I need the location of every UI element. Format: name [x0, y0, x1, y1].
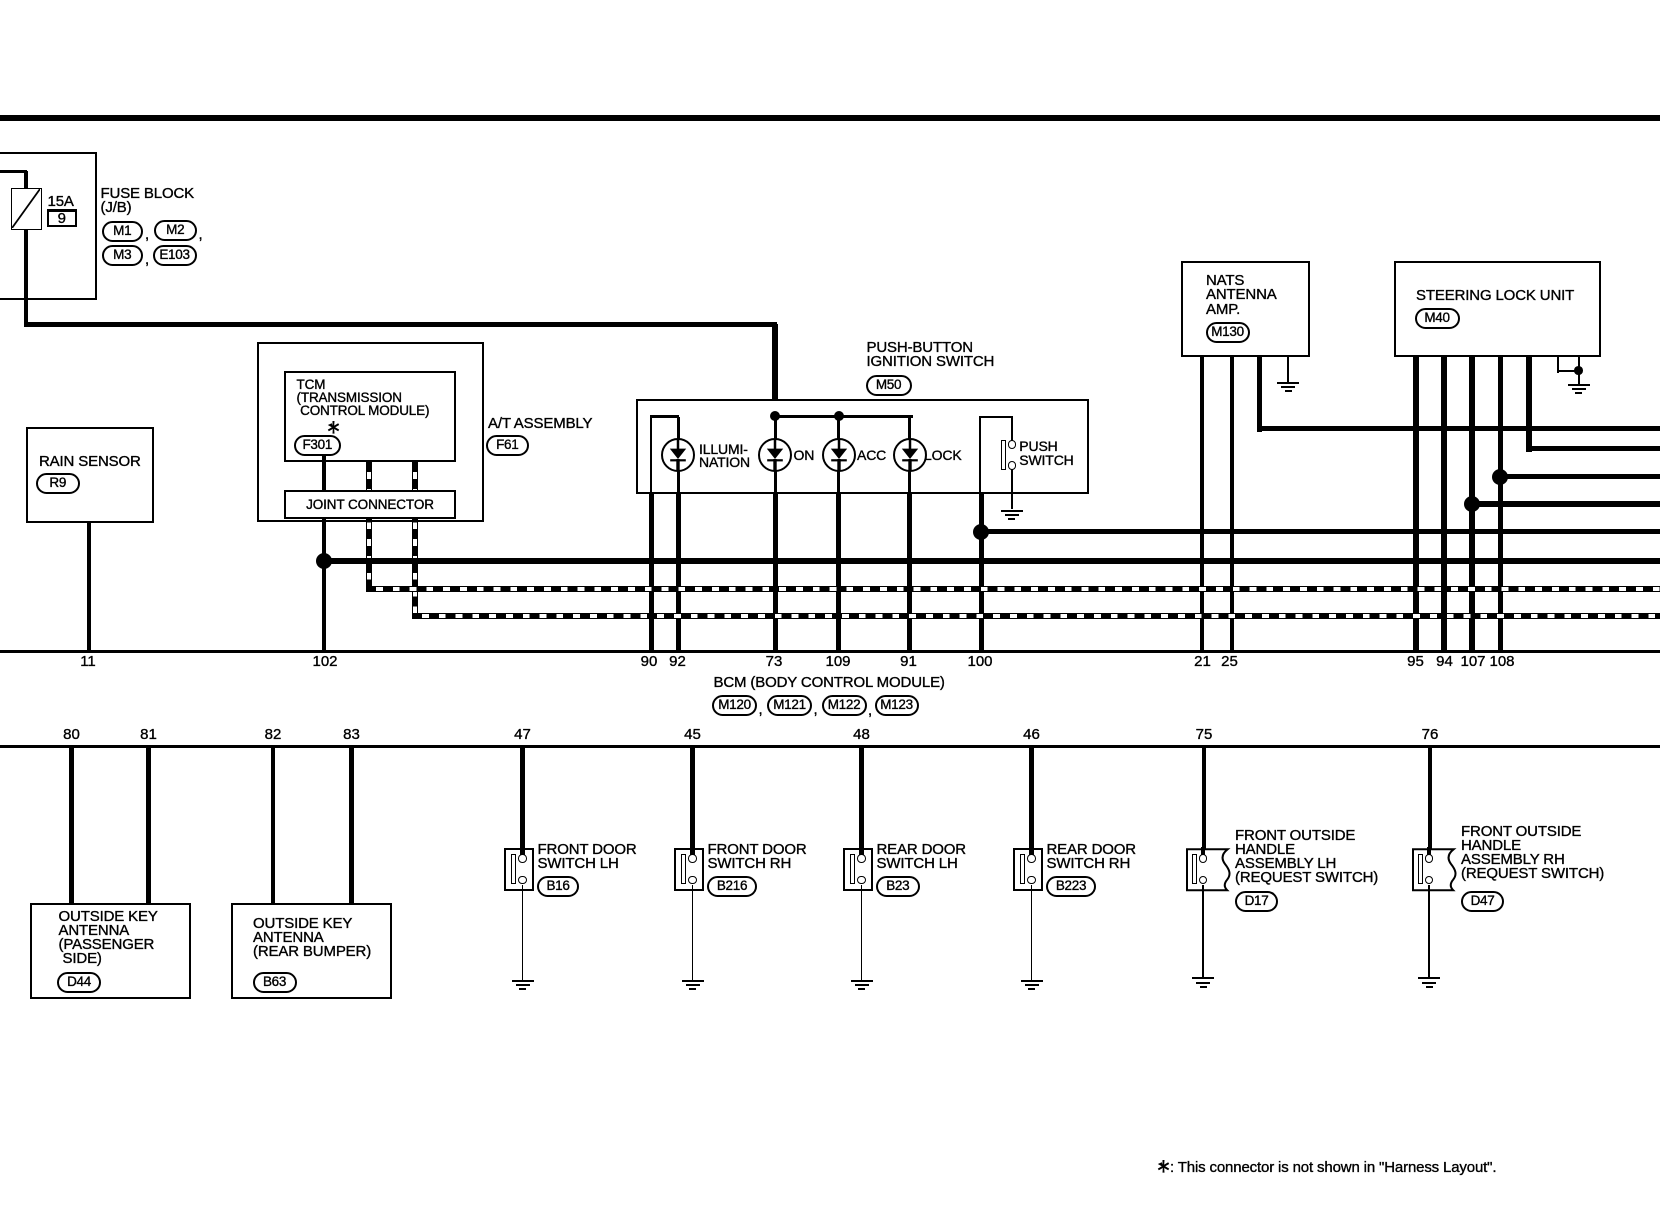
wire SLU pin 94 — [1441, 357, 1447, 651]
wire fuse feed vertical — [24, 171, 29, 327]
label OUTSIDE KEY ANTENNA REAR BUMPER label — [253, 917, 371, 960]
label FRONT OUTSIDE HANDLE ASSEMBLY LH label — [1235, 829, 1378, 886]
wire lock top lead — [908, 416, 911, 440]
wire BCM 92 drop — [676, 494, 681, 651]
pin BCM pin 107 — [1448, 654, 1498, 669]
connector M1 — [102, 221, 144, 242]
switch symbol REAR DOOR SWITCH LH — [843, 848, 873, 891]
pin BCM pin 45 — [668, 727, 718, 742]
pin BCM pin 47 — [498, 727, 548, 742]
wire BCM 46 drop — [1029, 748, 1033, 858]
label OUTSIDE KEY ANTENNA PASSENGER label — [59, 910, 158, 967]
wire FRONT DOOR SWITCH LH ground lead — [522, 885, 524, 980]
footnote — [1157, 1160, 1170, 1178]
wire BCM 90 drop — [649, 494, 654, 651]
ground steering lock ground — [1568, 384, 1590, 386]
connector E103 — [153, 245, 197, 266]
wire push switch 100 bus — [979, 529, 1660, 535]
pin BCM pin 11 — [63, 654, 113, 669]
wire NATS ground lead — [1287, 357, 1289, 382]
label FRONT DOOR SWITCH LH label — [538, 843, 637, 872]
wire TCM shield B vertical (shielded/dashed) — [412, 462, 418, 620]
wire fuse output bus — [24, 322, 778, 328]
star footnote mark at F301 — [327, 421, 340, 439]
connector M121 — [767, 695, 812, 716]
label ON label — [794, 449, 815, 462]
wire SLU pin 95 — [1413, 357, 1419, 651]
wire TCM shield A horizontal (shielded/dashed) — [366, 586, 1660, 592]
junction node TCM-102 junction — [316, 553, 332, 569]
connector M130 — [1206, 322, 1250, 343]
wire push switch contact lead — [1011, 416, 1013, 441]
ground FRONT DOOR SWITCH LH ground — [512, 980, 534, 982]
component box TCM — [284, 371, 456, 462]
wire rain sensor pin 11 — [87, 522, 91, 651]
wire TCM 102 bus — [322, 558, 1660, 564]
wire illumi bottom lead — [677, 470, 681, 495]
ground NATS ground — [1277, 382, 1299, 384]
pin BCM pin 95 — [1391, 654, 1441, 669]
pin BCM pin 91 — [884, 654, 934, 669]
wire push switch inner drop — [979, 416, 981, 494]
ground FRONT OUTSIDE HANDLE ASSEMBLY RH ground — [1418, 977, 1440, 979]
connector B16 — [537, 876, 579, 897]
wire BCM 109 drop — [836, 494, 841, 651]
ground REAR DOOR SWITCH LH ground — [851, 980, 873, 982]
fuse 15A #9 — [11, 188, 42, 230]
connector M120 — [712, 695, 757, 716]
wire BCM 100 drop — [979, 494, 984, 651]
wire SLU pin 108 — [1498, 357, 1504, 651]
wire NATS antenna signal bus — [1257, 426, 1660, 432]
wire acc top lead — [837, 417, 840, 440]
connector D17 — [1235, 891, 1278, 912]
wire BCM 80 drop — [69, 748, 73, 904]
connector D44 — [57, 972, 101, 993]
pin BCM pin 82 — [248, 727, 298, 742]
LED ILLUMINATION — [661, 438, 695, 472]
component box RAIN SENSOR — [26, 427, 154, 523]
label FUSE BLOCK (J/B) label — [101, 187, 195, 216]
top page rule — [0, 115, 1660, 121]
wire REAR DOOR SWITCH RH ground lead — [1031, 885, 1033, 980]
pin BCM pin 83 — [327, 727, 377, 742]
connector B63 — [253, 972, 297, 993]
switch symbol REAR DOOR SWITCH RH — [1013, 848, 1043, 891]
pin BCM pin 81 — [124, 727, 174, 742]
wire BCM 47 drop — [520, 748, 524, 858]
junction node led feed right — [834, 411, 844, 421]
connector B216 — [707, 876, 757, 897]
LED LOCK — [893, 438, 927, 472]
switch symbol FRONT DOOR SWITCH LH — [504, 848, 534, 891]
component box NATS ANTENNA AMP — [1181, 261, 1310, 357]
wire BCM 45 drop — [690, 748, 694, 858]
pin BCM pin 80 — [47, 727, 97, 742]
junction node SLU ground junction — [1574, 366, 1583, 375]
wire illumination rail — [650, 415, 680, 418]
wire BCM 73 drop — [773, 494, 778, 651]
label ILLUMINATION label — [699, 443, 750, 469]
connector R9 — [36, 473, 81, 494]
connector M2 — [154, 220, 198, 241]
pin BCM pin 48 — [837, 727, 887, 742]
connector M3 — [102, 245, 144, 266]
wire SLU pin5 bus — [1526, 446, 1660, 452]
label REAR DOOR SWITCH LH label — [877, 843, 967, 872]
wire BCM 81 drop — [146, 748, 150, 904]
connector B23 — [876, 876, 920, 897]
wire NATS pin 21 — [1200, 357, 1204, 651]
label LOCK label — [924, 449, 962, 462]
connector M122 — [822, 695, 867, 716]
junction node push-switch-100 junction — [973, 524, 989, 540]
component box OUTSIDE KEY ANTENNA PASSENGER — [30, 903, 191, 999]
ground FRONT DOOR SWITCH RH ground — [682, 980, 704, 982]
ground FRONT OUTSIDE HANDLE ASSEMBLY LH ground — [1192, 977, 1214, 979]
wire ignition feed drop — [772, 324, 778, 417]
wire NATS pin 25 — [1230, 357, 1234, 651]
switch symbol FRONT DOOR SWITCH RH — [674, 848, 704, 891]
pin BCM pin 73 — [749, 654, 799, 669]
component box A/T ASSEMBLY F61 — [257, 342, 484, 522]
connector M123 — [875, 695, 919, 716]
wire SLU ground pin B — [1578, 357, 1580, 384]
wire BCM 76 drop — [1428, 748, 1432, 858]
wire illumi top lead — [677, 417, 680, 440]
wire REAR DOOR SWITCH LH ground lead — [861, 885, 863, 980]
pin BCM pin 109 — [813, 654, 863, 669]
pin BCM pin 100 — [955, 654, 1005, 669]
pin BCM pin 46 — [1007, 727, 1057, 742]
wire BCM 83 drop — [349, 748, 353, 904]
pin BCM pin 25 — [1205, 654, 1255, 669]
label RAIN SENSOR label — [39, 455, 141, 470]
component box FUSE BLOCK (J/B) — [0, 152, 97, 300]
component box ignition switch box — [636, 399, 1090, 494]
fuse number 9 box — [47, 209, 77, 228]
pin BCM pin 102 — [300, 654, 350, 669]
label BCM label — [714, 676, 945, 691]
connector M50 — [866, 375, 912, 396]
switch symbol FRONT OUTSIDE HANDLE ASSEMBLY RH (request switch, torn edge) — [1411, 847, 1461, 898]
connector M40 — [1415, 308, 1460, 329]
wire battery stub — [0, 170, 27, 173]
wire TCM shield A vertical (shielded/dashed) — [366, 462, 372, 593]
wire SLU pin 107 — [1469, 357, 1475, 651]
label FRONT DOOR SWITCH RH label — [708, 843, 807, 872]
wire FRONT OUTSIDE HANDLE ASSEMBLY RH ground lead — [1428, 885, 1430, 978]
wire BCM 91 drop — [907, 494, 912, 651]
wire SLU ground pin A — [1557, 357, 1559, 373]
label PUSH SWITCH label — [1019, 440, 1073, 468]
LED ON — [758, 438, 792, 472]
wire BCM 48 drop — [859, 748, 863, 858]
connector B223 — [1046, 876, 1096, 897]
wire push switch ground lead — [1011, 469, 1013, 509]
wire NATS pin 3 drop — [1257, 357, 1263, 432]
pin BCM pin 94 — [1420, 654, 1470, 669]
wire lock bottom lead — [908, 470, 912, 495]
wire SLU 108 bus — [1498, 474, 1660, 480]
component box OUTSIDE KEY ANTENNA REAR BUMPER — [231, 903, 392, 999]
junction node led feed left — [770, 411, 780, 421]
pin BCM pin 76 — [1405, 727, 1455, 742]
connector D47 — [1461, 891, 1504, 912]
label PUSH-BUTTON IGNITION SWITCH label — [867, 341, 995, 370]
BCM lower bus line — [0, 745, 1660, 748]
pin BCM pin 75 — [1179, 727, 1229, 742]
ground push switch ground — [1001, 510, 1023, 512]
JOINT CONNECTOR box — [284, 490, 456, 519]
label STEERING LOCK UNIT label — [1416, 289, 1574, 304]
label NATS ANTENNA AMP label — [1206, 274, 1277, 318]
wire FRONT DOOR SWITCH RH ground lead — [692, 885, 694, 980]
ground REAR DOOR SWITCH RH ground — [1021, 980, 1043, 982]
connector F301 — [294, 435, 341, 456]
label REAR DOOR SWITCH RH label — [1047, 843, 1137, 872]
switch symbol FRONT OUTSIDE HANDLE ASSEMBLY LH (request switch, torn edge) — [1185, 847, 1235, 898]
wire BCM 82 drop — [271, 748, 275, 904]
label ACC label — [857, 449, 886, 462]
wire FRONT OUTSIDE HANDLE ASSEMBLY LH ground lead — [1202, 885, 1204, 978]
junction node SLU-107 junction — [1464, 496, 1480, 512]
wire SLU pin 5 drop — [1526, 357, 1532, 452]
connector F61 — [486, 435, 530, 456]
wire SLU ground link — [1557, 370, 1580, 372]
label fuse rating 15A — [48, 195, 74, 210]
pin BCM pin 108 — [1477, 654, 1527, 669]
wire acc bottom lead — [837, 470, 841, 495]
pin BCM pin 90 — [624, 654, 674, 669]
wire on bottom lead — [774, 470, 778, 495]
junction node SLU-108 junction — [1492, 469, 1508, 485]
label A/T ASSEMBLY label — [488, 417, 592, 432]
wire TCM pin to BCM 102 — [322, 456, 327, 651]
label FRONT OUTSIDE HANDLE ASSEMBLY RH label — [1461, 825, 1604, 882]
LED ACC — [822, 438, 856, 472]
wire SLU 107 bus — [1469, 501, 1660, 507]
wire push switch top rail — [979, 416, 1013, 418]
pin BCM pin 92 — [653, 654, 703, 669]
pin BCM pin 21 — [1178, 654, 1228, 669]
label TCM label — [297, 378, 430, 418]
wire led feed rail — [774, 415, 914, 418]
component box STEERING LOCK UNIT — [1394, 261, 1601, 357]
wire TCM shield B horizontal (shielded/dashed) — [412, 613, 1660, 619]
wire pin90 inner drop — [650, 415, 653, 494]
wire on top lead — [774, 417, 777, 440]
wire BCM 75 drop — [1202, 748, 1206, 858]
BCM upper bus line — [0, 650, 1660, 653]
